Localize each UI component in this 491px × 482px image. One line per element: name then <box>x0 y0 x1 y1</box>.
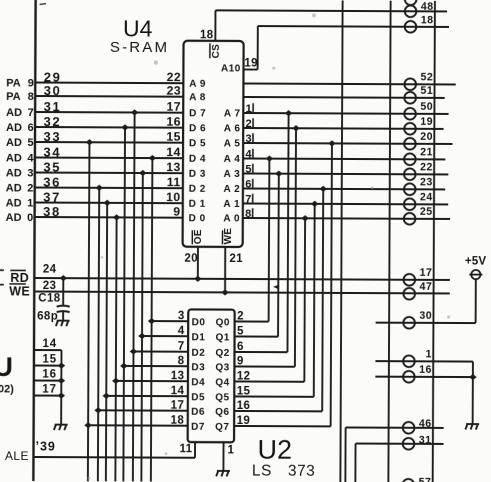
wire A6 down to U2 Q <box>295 128 296 366</box>
svg-text:AD: AD <box>6 122 22 134</box>
wire RD line <box>34 278 449 280</box>
svg-text:23: 23 <box>43 280 57 292</box>
svg-text:6: 6 <box>28 122 34 134</box>
svg-text:6: 6 <box>237 341 244 353</box>
svg-text:51: 51 <box>420 85 433 97</box>
wire AD 6 row <box>35 126 183 129</box>
wire vertical bus line B <box>388 1 390 482</box>
svg-text:+5V: +5V <box>465 256 487 268</box>
wire AD 0 row <box>35 216 183 219</box>
svg-text:LS: LS <box>252 463 272 480</box>
svg-text:50: 50 <box>420 101 433 113</box>
ground CPU pins <box>54 425 68 431</box>
junction AD3 tap <box>139 170 147 176</box>
pin cell tick <box>252 208 254 217</box>
wire A0 down to U2 Q <box>303 218 306 381</box>
svg-text:8: 8 <box>28 91 34 103</box>
wire WE line <box>34 292 449 294</box>
svg-text:20: 20 <box>420 131 433 143</box>
svg-text:A10: A10 <box>221 63 241 74</box>
svg-text:A 8: A 8 <box>189 92 206 103</box>
wire CPU pin 17 row <box>34 395 61 397</box>
svg-text:5: 5 <box>27 137 33 149</box>
svg-text:WE: WE <box>223 228 234 245</box>
wire AD3 vertical down to page edge <box>141 173 142 481</box>
svg-text:D3: D3 <box>191 362 205 373</box>
svg-text:16: 16 <box>42 368 56 380</box>
junction pin15 <box>58 363 66 369</box>
wire down to ground <box>472 362 474 424</box>
svg-text:4: 4 <box>27 153 34 165</box>
svg-text:C18: C18 <box>38 293 61 305</box>
wire PA 8 row <box>35 95 183 98</box>
svg-text:68p: 68p <box>37 311 58 323</box>
wire connector 46 row <box>346 426 444 428</box>
wire U4 CS pin 18 stub up <box>214 10 216 40</box>
svg-text:AD: AD <box>6 168 22 180</box>
wire C18 bottom lead <box>62 312 64 320</box>
svg-text:15: 15 <box>237 386 251 398</box>
junction A6 tap <box>292 125 300 131</box>
svg-text:D1: D1 <box>192 332 206 343</box>
wire U2 Q stub A4 <box>235 320 269 322</box>
svg-text:11: 11 <box>167 175 181 189</box>
wire +5V row through connector 30 <box>376 322 476 324</box>
svg-text:PA: PA <box>6 91 21 103</box>
wire left CPU bus vertical <box>33 0 35 481</box>
svg-text:37: 37 <box>43 190 61 205</box>
junction AD2 tap <box>95 185 103 191</box>
junction pin17 <box>57 393 65 399</box>
svg-text:Q7: Q7 <box>215 422 229 433</box>
svg-text:D7: D7 <box>191 422 205 433</box>
junction AD0/D4 <box>112 378 120 384</box>
wire A5 down to U2 Q <box>331 143 332 426</box>
wire A10 net to connector 18 <box>258 25 449 28</box>
junction AD2/D6 <box>94 407 102 413</box>
svg-text:D 4: D 4 <box>189 154 206 165</box>
svg-text:16: 16 <box>237 400 251 412</box>
wire connector 31 row <box>356 443 444 445</box>
pin cell tick <box>252 149 254 158</box>
op IC U2 LS373 box <box>188 309 235 442</box>
svg-text:9: 9 <box>237 356 244 368</box>
svg-text:D5: D5 <box>191 392 205 403</box>
wire into U2 D0 <box>152 320 189 322</box>
connector pin 30 <box>403 317 415 329</box>
svg-text:OE: OE <box>193 229 204 244</box>
svg-text:23: 23 <box>166 84 181 98</box>
svg-text:U2: U2 <box>257 435 292 465</box>
wire vertical bus line C (connector rail) <box>433 1 435 482</box>
wire ALE row <box>33 456 194 459</box>
svg-text:9: 9 <box>28 78 34 90</box>
svg-text:2: 2 <box>27 183 33 195</box>
connector pin 57 <box>403 479 415 482</box>
svg-text:7: 7 <box>178 341 185 353</box>
svg-text:14: 14 <box>171 385 185 397</box>
connector pin 21 <box>404 153 416 165</box>
wire up to connector 46 <box>344 427 346 482</box>
wire A4 down to U2 Q <box>268 159 271 322</box>
svg-text:24: 24 <box>420 191 433 203</box>
pin cell tick <box>252 133 254 142</box>
wire AD2 vertical down to page edge <box>98 188 99 481</box>
svg-text:1: 1 <box>227 444 234 456</box>
svg-text:11: 11 <box>179 443 192 455</box>
wire up to +5V terminal <box>475 279 477 323</box>
svg-text:57: 57 <box>419 476 432 482</box>
svg-text:D 6: D 6 <box>189 123 206 134</box>
pin cell tick <box>252 194 254 203</box>
wire AD5 vertical down to page edge <box>88 142 90 481</box>
wire into U2 D1 <box>142 335 188 337</box>
wire A2 down to U2 Q <box>322 189 323 411</box>
wire AD 2 row <box>35 187 183 190</box>
svg-text:18: 18 <box>421 14 434 26</box>
wire AD1 vertical down to page edge <box>106 203 107 481</box>
svg-text:22: 22 <box>420 161 433 173</box>
svg-text:D 0: D 0 <box>189 213 206 224</box>
svg-text:24: 24 <box>43 264 57 276</box>
junction OE/RD <box>194 276 202 282</box>
junction WE <box>221 289 229 295</box>
svg-text:30: 30 <box>419 310 432 322</box>
ground U2 OE <box>216 471 230 477</box>
svg-text:52: 52 <box>420 71 433 83</box>
svg-text:48: 48 <box>421 1 434 13</box>
svg-text:D 5: D 5 <box>189 138 206 149</box>
wire AD 5 row <box>35 141 183 144</box>
svg-text:17: 17 <box>420 267 433 279</box>
svg-text:15: 15 <box>166 130 181 144</box>
svg-text:17: 17 <box>171 400 185 412</box>
junction A4 tap <box>266 155 274 161</box>
svg-text:16: 16 <box>419 364 432 376</box>
wire A9 row to connector 52 <box>243 83 455 84</box>
junction A1 tap <box>311 201 319 207</box>
wire U4 WE pin 21 to WE line <box>224 247 226 292</box>
junction AD1/D5 <box>102 393 110 399</box>
wire CPU pin 14 row <box>34 349 61 351</box>
wire A5 row to connector <box>243 142 452 145</box>
svg-text:35: 35 <box>43 160 61 175</box>
svg-text:A 7: A 7 <box>224 108 241 119</box>
svg-text:31: 31 <box>44 99 62 114</box>
wire U2 Q stub A1 <box>234 395 313 397</box>
junction AD0 tap <box>113 214 121 220</box>
wire U4 A10 pin 19 stub <box>244 68 258 70</box>
wire U2 Q stub A5 <box>234 425 330 427</box>
svg-text:AD: AD <box>6 107 22 119</box>
svg-text:Q3: Q3 <box>215 362 229 373</box>
svg-text:17: 17 <box>42 383 56 395</box>
svg-text:Q0: Q0 <box>216 317 230 328</box>
connector pin 20 <box>404 138 416 150</box>
connector pin 50 <box>404 108 416 120</box>
svg-text:U4: U4 <box>123 15 153 41</box>
svg-text:373: 373 <box>288 463 315 480</box>
ground right <box>465 424 479 430</box>
svg-text:13: 13 <box>166 160 181 174</box>
svg-text:D 3: D 3 <box>189 169 206 180</box>
wire into U2 D4 <box>116 380 188 382</box>
wire A1 row to connector <box>243 202 448 205</box>
junction A5 tap <box>328 140 336 146</box>
svg-text:4: 4 <box>178 325 185 337</box>
wire into U2 D5 <box>106 395 188 397</box>
wire U2 Q stub A7 <box>234 351 287 353</box>
svg-text:RD: RD <box>10 271 29 285</box>
connector pin 16 <box>403 371 415 383</box>
svg-text:8: 8 <box>178 355 185 367</box>
junction 16/gnd <box>469 374 477 380</box>
svg-text:S-RAM: S-RAM <box>110 39 169 56</box>
connector pin 51 <box>404 92 416 104</box>
svg-text:Q5: Q5 <box>215 392 229 403</box>
wire U4 OE pin 20 to RD line <box>197 247 199 279</box>
svg-text:9: 9 <box>173 205 180 219</box>
wire U2 Q stub A0 <box>234 380 304 382</box>
svg-text:18: 18 <box>171 415 185 427</box>
svg-text:Q4: Q4 <box>215 377 229 388</box>
wire CPU pin 16 row <box>34 380 61 382</box>
wire stub 18 <box>435 26 449 28</box>
connector pin 22 <box>404 168 416 180</box>
wire A3 row to connector <box>243 172 448 175</box>
wire A3 down to U2 Q <box>277 174 280 337</box>
svg-text:A 1: A 1 <box>223 199 240 210</box>
svg-text:1: 1 <box>426 348 432 360</box>
svg-text:D 1: D 1 <box>189 199 206 210</box>
wire A8 row to connector 51 <box>243 96 444 99</box>
svg-text:32: 32 <box>44 114 62 129</box>
junction A3 tap <box>275 171 283 177</box>
left-edge cut marks <box>0 270 4 285</box>
svg-text:2: 2 <box>237 311 244 323</box>
svg-text:(02): (02) <box>0 383 14 395</box>
junction AD5/D7 <box>84 422 92 428</box>
wire A0 row to connector <box>243 217 450 220</box>
svg-text:13: 13 <box>171 370 185 382</box>
wire connector 16 row <box>375 376 472 378</box>
wire into U2 D6 <box>98 409 188 411</box>
pin cell tick <box>252 164 254 173</box>
svg-text:34: 34 <box>43 145 61 160</box>
wire AD4 vertical down to page edge <box>151 158 153 481</box>
svg-text:A 2: A 2 <box>224 184 241 195</box>
svg-text:36: 36 <box>43 175 61 190</box>
ground C18 <box>56 321 70 327</box>
svg-text:14: 14 <box>166 145 181 159</box>
svg-text:0: 0 <box>27 212 33 224</box>
connector pin 1 <box>403 355 415 367</box>
svg-text:A 9: A 9 <box>189 79 206 90</box>
wire vertical bus line A <box>340 0 342 482</box>
svg-text:D2: D2 <box>191 348 205 359</box>
connector pin 47 <box>403 288 415 300</box>
connector pin 31 <box>403 438 415 450</box>
junction AD1 tap <box>103 200 111 206</box>
wire A7 down to U2 Q <box>287 113 288 352</box>
junction AD5 tap <box>86 139 94 145</box>
svg-text:U: U <box>0 352 13 382</box>
wire CPU pin 15 row <box>34 365 61 367</box>
wire U2 Q stub A2 <box>234 410 322 412</box>
wire U2 pin 11 stub <box>194 442 196 458</box>
wire A2 row to connector <box>243 187 445 190</box>
svg-text:14: 14 <box>42 338 56 350</box>
svg-text:D6: D6 <box>191 407 205 418</box>
wire U2 Q stub A3 <box>235 335 278 337</box>
svg-text:21: 21 <box>229 253 243 265</box>
svg-text:23: 23 <box>420 176 433 188</box>
junction pin16 <box>58 378 66 384</box>
svg-text:A 5: A 5 <box>224 138 241 149</box>
junction RD/C18 <box>60 275 68 281</box>
junction AD4 tap <box>149 155 157 161</box>
wire U2 pin 1 stub down <box>222 442 224 471</box>
wire up to connector 31 <box>354 444 356 482</box>
svg-text:ʼ39: ʼ39 <box>35 440 55 454</box>
svg-text:A 0: A 0 <box>223 213 240 224</box>
svg-text:19: 19 <box>420 116 433 128</box>
connector pin 48 <box>405 5 417 17</box>
svg-text:AD: AD <box>6 137 22 149</box>
svg-text:10: 10 <box>166 190 181 204</box>
svg-text:21: 21 <box>420 146 433 158</box>
svg-text:38: 38 <box>43 204 61 219</box>
svg-text:WE: WE <box>9 284 30 298</box>
svg-text:20: 20 <box>184 253 198 265</box>
svg-text:A 4: A 4 <box>224 154 241 165</box>
svg-text:7: 7 <box>28 107 34 119</box>
junction AD6/D3 <box>120 363 128 369</box>
svg-text:17: 17 <box>166 100 181 114</box>
wire CS net to connector 48 <box>215 10 447 11</box>
connector pin 46 <box>403 422 415 434</box>
svg-text:D4: D4 <box>191 377 205 388</box>
svg-text:AD: AD <box>6 212 22 224</box>
wire ground tie vertical <box>60 350 62 424</box>
svg-text:30: 30 <box>44 83 62 98</box>
wire into U2 D2 <box>133 350 188 352</box>
svg-text:PA: PA <box>6 78 21 90</box>
wire AD 4 row <box>35 157 183 160</box>
svg-text:19: 19 <box>244 57 258 69</box>
svg-text:5: 5 <box>237 326 244 338</box>
wire A4 row to connector <box>243 157 445 160</box>
svg-text:12: 12 <box>237 371 251 383</box>
svg-text:47: 47 <box>419 281 432 293</box>
junction AD3/D1 <box>138 333 146 339</box>
svg-text:D 2: D 2 <box>189 184 206 195</box>
svg-text:D0: D0 <box>192 317 206 328</box>
svg-text:22: 22 <box>167 70 182 84</box>
junction A0 tap <box>301 215 309 221</box>
connector pin 25 <box>404 213 416 225</box>
svg-text:1: 1 <box>27 198 33 210</box>
svg-text:AD: AD <box>6 153 22 165</box>
connector pin 24 <box>404 198 416 210</box>
svg-text:AD: AD <box>6 198 22 210</box>
svg-text:18: 18 <box>200 29 214 41</box>
pin cell tick <box>252 118 254 127</box>
connector pin 52 <box>404 78 416 90</box>
junction AD6 tap <box>121 124 129 130</box>
svg-text:A 3: A 3 <box>224 169 241 180</box>
junction A7 tap <box>285 110 293 116</box>
wire into U2 D3 <box>124 365 188 367</box>
wire U2 Q stub A6 <box>234 365 294 367</box>
wire A6 row to connector <box>243 127 443 130</box>
connector pin 23 <box>404 183 416 195</box>
scan speckles <box>87 12 451 481</box>
wire AD6 vertical down to page edge <box>123 127 125 481</box>
wire A1 down to U2 Q <box>313 204 316 397</box>
svg-text:Q6: Q6 <box>215 407 229 418</box>
connector pin 19 <box>404 123 416 135</box>
svg-text:AD: AD <box>6 183 22 195</box>
svg-text:3: 3 <box>27 168 33 180</box>
wire AD 3 row <box>35 172 183 175</box>
connector pin top <box>405 0 417 5</box>
wire AD 1 row <box>35 202 183 205</box>
wire A10 net up <box>257 26 259 69</box>
op IC U4 S-RAM box <box>183 41 244 247</box>
pin cell tick <box>252 179 254 188</box>
scan artifact arrowhead <box>273 284 279 289</box>
wire connector 1 row <box>375 360 472 362</box>
connector pin 18 <box>405 21 417 33</box>
svg-text:Q1: Q1 <box>216 332 230 343</box>
junction AD7/D2 <box>130 348 138 354</box>
wire PA 9 row <box>35 82 183 85</box>
junction AD4/D0 <box>148 318 156 324</box>
svg-text:25: 25 <box>420 206 433 218</box>
svg-text:19: 19 <box>237 415 251 427</box>
wire AD0 vertical down to page edge <box>115 217 116 481</box>
+5V terminal <box>471 270 480 279</box>
svg-text:CS: CS <box>211 44 222 59</box>
stray scan tick <box>40 4 47 5</box>
svg-text:ALE: ALE <box>5 449 29 463</box>
wire into U2 D7 <box>88 424 188 426</box>
wire AD 7 row <box>35 111 183 114</box>
wire C18 top lead <box>62 278 64 304</box>
svg-text:A 6: A 6 <box>224 123 241 134</box>
wire AD7 vertical down to page edge <box>133 112 135 481</box>
pin cell tick <box>252 103 254 112</box>
svg-text:15: 15 <box>42 353 56 365</box>
svg-text:3: 3 <box>178 310 185 322</box>
junction AD7 tap <box>131 109 139 115</box>
svg-text:Q2: Q2 <box>215 348 229 359</box>
junction A2 tap <box>319 186 327 192</box>
svg-text:D 7: D 7 <box>189 108 206 119</box>
capacitor C18 68p <box>57 306 70 307</box>
svg-text:33: 33 <box>43 129 61 144</box>
svg-text:16: 16 <box>166 115 181 129</box>
connector pin 17 <box>403 274 415 286</box>
wire A7 row to connector <box>243 112 448 115</box>
